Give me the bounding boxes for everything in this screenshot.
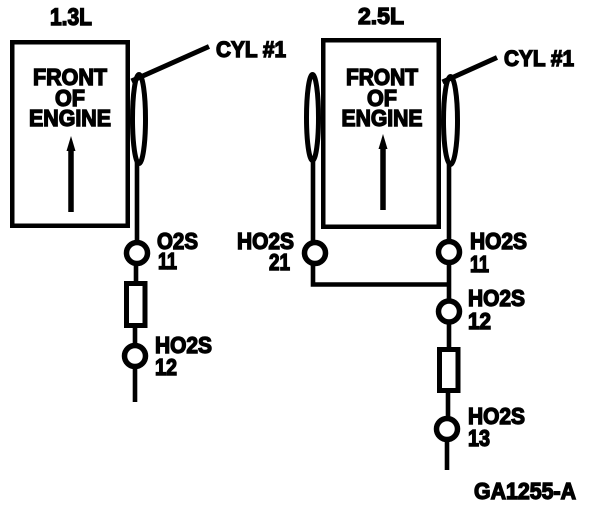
svg-text:ENGINE: ENGINE bbox=[29, 105, 111, 131]
svg-text:ENGINE: ENGINE bbox=[342, 105, 423, 131]
svg-text:12: 12 bbox=[155, 354, 177, 380]
svg-text:21: 21 bbox=[269, 249, 290, 275]
svg-text:1.3L: 1.3L bbox=[50, 4, 92, 31]
svg-text:12: 12 bbox=[468, 308, 491, 334]
svg-text:11: 11 bbox=[470, 251, 489, 277]
svg-text:CYL #1: CYL #1 bbox=[504, 46, 574, 71]
svg-text:GA1255-A: GA1255-A bbox=[474, 478, 576, 504]
svg-text:CYL #1: CYL #1 bbox=[216, 37, 286, 62]
svg-text:13: 13 bbox=[468, 425, 490, 451]
svg-text:2.5L: 2.5L bbox=[358, 3, 404, 29]
svg-text:11: 11 bbox=[158, 248, 177, 274]
